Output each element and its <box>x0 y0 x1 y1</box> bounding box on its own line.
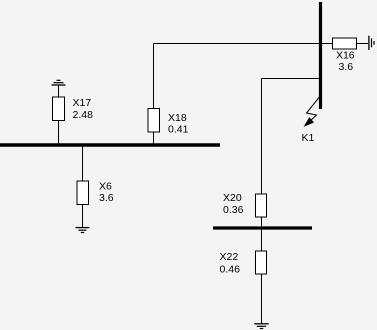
svg-text:X22: X22 <box>220 251 239 263</box>
svg-text:K1: K1 <box>302 132 315 144</box>
svg-text:X17: X17 <box>73 97 92 109</box>
svg-text:X20: X20 <box>223 192 242 204</box>
svg-text:2.48: 2.48 <box>73 109 94 121</box>
svg-text:X16: X16 <box>336 50 355 62</box>
svg-text:X18: X18 <box>168 112 187 124</box>
svg-text:X6: X6 <box>99 180 112 192</box>
svg-text:0.41: 0.41 <box>168 124 189 136</box>
svg-text:3.6: 3.6 <box>99 192 114 204</box>
svg-text:0.46: 0.46 <box>220 263 241 275</box>
svg-text:3.6: 3.6 <box>338 61 353 73</box>
svg-text:0.36: 0.36 <box>223 204 244 216</box>
